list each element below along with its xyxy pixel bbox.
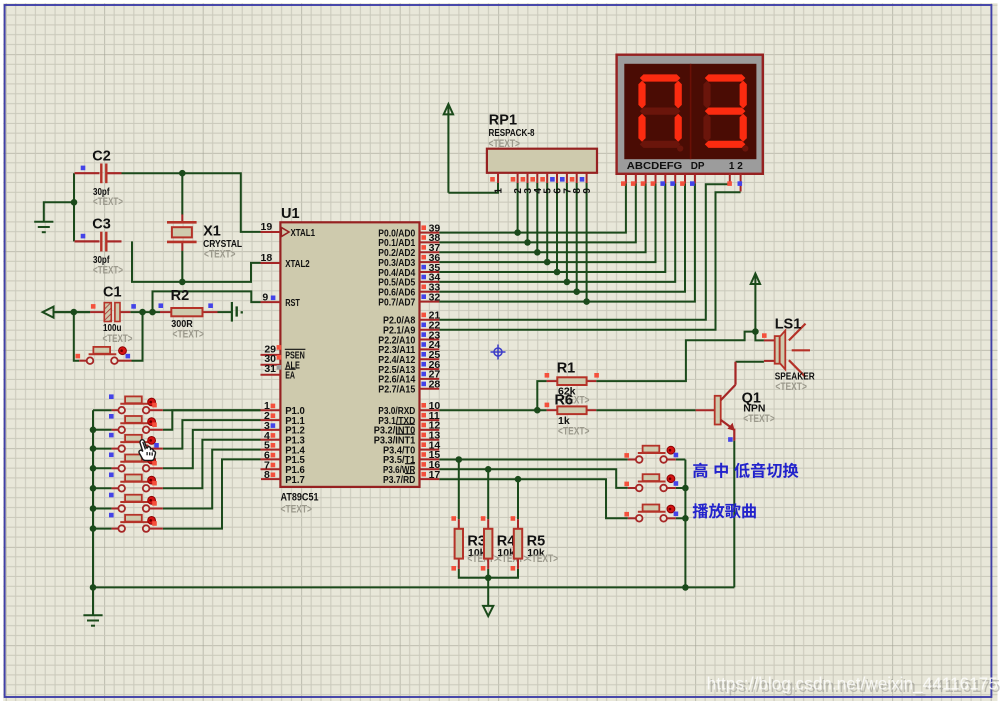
svg-text:DP: DP xyxy=(691,161,705,172)
wire rail to key6 xyxy=(93,508,112,510)
svg-text:19: 19 xyxy=(261,221,273,233)
svg-text:<TEXT>: <TEXT> xyxy=(489,138,521,150)
svg-text:31: 31 xyxy=(264,363,276,375)
left digit segments xyxy=(638,74,683,151)
wire P0.0 to display segment A xyxy=(439,183,626,232)
svg-text:ABCDEFG: ABCDEFG xyxy=(627,161,683,172)
right digit segments xyxy=(703,74,748,151)
wire key7 to P1.6 xyxy=(163,459,261,528)
junction at 152,312 xyxy=(149,309,156,316)
junction at 93,529 xyxy=(90,525,97,532)
svg-text:P1.7: P1.7 xyxy=(285,474,305,486)
wire key2 to P1.1 xyxy=(163,410,261,430)
svg-text:<TEXT>: <TEXT> xyxy=(173,329,205,341)
svg-text:C2: C2 xyxy=(92,148,111,164)
U1 right pins xyxy=(420,233,440,480)
wire P3.0 to R6 xyxy=(439,409,546,411)
svg-text:RST: RST xyxy=(285,297,300,309)
wire C2-C3 left vertical xyxy=(73,173,75,241)
junction at 685,587 xyxy=(682,584,689,591)
Chinese annotation: tone switch xyxy=(693,463,798,478)
junction at 93,508 xyxy=(90,505,97,512)
junction at 182,173 xyxy=(179,170,186,177)
wire power arrow to C1 xyxy=(54,311,90,313)
7-segment display (2 digit) xyxy=(617,55,763,174)
resistor R2 xyxy=(159,288,218,340)
wire P2.1 to display digit2 xyxy=(439,192,740,330)
junction at 528,242 xyxy=(524,239,531,246)
svg-text:<TEXT>: <TEXT> xyxy=(775,381,807,393)
junction at 685,488 xyxy=(682,485,689,492)
wire P3.7 to button xyxy=(439,479,628,518)
transistor Q1 NPN xyxy=(696,362,775,442)
wire to top ground xyxy=(44,202,74,222)
wire RP1 pin6 to P0.4 xyxy=(556,183,558,272)
wire node to R1 left xyxy=(537,381,546,410)
svg-text:32: 32 xyxy=(429,291,441,303)
wire P0.6 to display segment G xyxy=(439,183,685,291)
wire R3-R5 bottoms xyxy=(459,569,518,578)
capacitor C2 xyxy=(75,148,124,208)
svg-text:C1: C1 xyxy=(103,284,122,300)
wire key3 to P1.2 xyxy=(163,420,261,449)
svg-text:1: 1 xyxy=(729,161,735,172)
junction at 182,282 xyxy=(179,279,186,286)
svg-text:XTAL1: XTAL1 xyxy=(291,227,316,239)
svg-text:<TEXT>: <TEXT> xyxy=(103,333,133,345)
wire P3.6 to button xyxy=(439,469,628,488)
svg-text:2: 2 xyxy=(737,161,743,172)
wire P3.5 to button xyxy=(439,459,628,461)
svg-text:<TEXT>: <TEXT> xyxy=(558,425,590,437)
wire power arrow above RP1 xyxy=(447,105,449,193)
U1 left pins xyxy=(261,232,281,479)
wire rail to key1 xyxy=(93,409,112,411)
wire key5 to P1.4 xyxy=(163,440,261,489)
wire power arrow above speaker xyxy=(754,274,756,332)
wire Q1 collector to LS1 pin2 xyxy=(736,361,764,363)
junction at 93,587 xyxy=(90,584,97,591)
resistor R5 10k xyxy=(511,516,558,570)
svg-text:P2.7/A15: P2.7/A15 xyxy=(378,384,415,396)
svg-text:AT89C51: AT89C51 xyxy=(281,492,319,504)
svg-text:R2: R2 xyxy=(171,288,190,304)
wire RP1 pin4 to P0.2 xyxy=(536,183,538,252)
svg-text:<TEXT>: <TEXT> xyxy=(93,264,123,276)
wire R4 to ground arrow xyxy=(487,569,489,606)
svg-text:EA: EA xyxy=(285,370,295,382)
wire RP1 pin7 to P0.5 xyxy=(566,183,568,282)
wire node to R4 xyxy=(487,469,489,519)
junction at 93,488 xyxy=(90,485,97,492)
wire P0.4 to display segment E xyxy=(439,183,665,272)
wire key4 to P1.3 xyxy=(163,430,261,468)
svg-text:https://blog.csdn.net/weixin_4: https://blog.csdn.net/weixin_44116175 xyxy=(707,674,998,694)
power arrow above speaker xyxy=(751,274,760,284)
junction at 93,449 xyxy=(90,445,97,452)
op-amp U1 body: AT89C51 microcontroller xyxy=(280,206,419,516)
junction at 93,430 xyxy=(90,427,97,434)
push button right 3 xyxy=(628,517,636,519)
push button key4 xyxy=(112,467,119,469)
junction at 488,469 xyxy=(485,466,492,473)
svg-text:<TEXT>: <TEXT> xyxy=(281,504,313,516)
svg-text:9: 9 xyxy=(262,292,268,304)
wire P0.2 to display segment C xyxy=(439,183,645,252)
wire P0.3 to display segment D xyxy=(439,183,655,262)
display pin labels xyxy=(627,161,744,172)
wire rail to key4 xyxy=(93,467,112,469)
power arrow above RP1 xyxy=(444,104,453,114)
resistor R4 10k xyxy=(481,516,529,570)
resistor R3 10k xyxy=(451,516,499,570)
wire C1 to reset button xyxy=(74,312,79,361)
wire node to R5 xyxy=(517,479,519,519)
battery symbol right of R2 xyxy=(232,302,237,322)
wire right button1 stub xyxy=(676,459,686,461)
wire key6 to P1.5 xyxy=(163,450,261,509)
svg-text:<TEXT>: <TEXT> xyxy=(497,553,529,565)
mouse hand cursor xyxy=(139,440,156,461)
wire right button3 stub xyxy=(676,517,686,519)
junction at 567,282 xyxy=(564,279,571,286)
display pin state squares xyxy=(621,181,626,186)
junction at 547,262 xyxy=(544,259,551,266)
svg-text:P3.7/RD: P3.7/RD xyxy=(383,474,416,486)
wire rail to key2 xyxy=(93,429,112,431)
svg-text:XTAL2: XTAL2 xyxy=(285,258,310,270)
capacitor C3 xyxy=(75,217,124,277)
wire node to R3 xyxy=(458,460,460,520)
reset button xyxy=(79,360,86,362)
wire rail to key7 xyxy=(93,528,112,530)
resistor R6 xyxy=(545,392,597,437)
Chinese annotation: play song xyxy=(693,503,756,518)
svg-text:9: 9 xyxy=(582,188,593,194)
wire right button2 stub xyxy=(676,487,686,489)
wire P2.0 to display digit1 xyxy=(439,184,730,319)
wire X1 top lead xyxy=(181,173,183,214)
svg-text:1: 1 xyxy=(494,188,505,194)
RP1 pin stubs 1-9 xyxy=(498,173,587,183)
svg-text:<TEXT>: <TEXT> xyxy=(743,413,775,425)
junction at 459,460 xyxy=(456,456,463,463)
wire R2 to battery xyxy=(218,311,232,313)
junction at 537,410 xyxy=(534,407,541,414)
junction at 755,332 xyxy=(752,328,759,335)
svg-text:28: 28 xyxy=(429,379,441,391)
RP1 pin state squares xyxy=(490,177,495,182)
svg-text:R1: R1 xyxy=(557,360,576,376)
svg-text:LS1: LS1 xyxy=(775,316,802,332)
svg-text:18: 18 xyxy=(261,252,273,264)
junction at 518,479 xyxy=(515,476,522,483)
wire key1 to P1.0 xyxy=(163,409,261,411)
junction at 518,233 xyxy=(514,229,521,236)
wire ground rail xyxy=(93,586,734,588)
wire P0.1 to display segment B xyxy=(439,183,636,242)
push button key1 xyxy=(112,409,119,411)
push button right 1 xyxy=(628,459,636,461)
wire P0.7 to display segment DP xyxy=(439,183,695,301)
display pin stubs xyxy=(626,174,741,192)
RP1 pin numbers xyxy=(494,188,594,194)
junction at 74,312 xyxy=(71,309,78,316)
wire power to RP1 pin1 xyxy=(448,183,498,193)
svg-text:<TEXT>: <TEXT> xyxy=(93,196,123,208)
wire RP1 pin8 to P0.6 xyxy=(576,183,578,292)
power arrow left of C1 xyxy=(43,307,91,318)
wire P0.5 to display segment F xyxy=(439,183,675,282)
resistor R1 xyxy=(545,360,599,397)
wire rail to key3 xyxy=(93,448,112,450)
svg-text:17: 17 xyxy=(429,469,441,481)
speaker LS1 xyxy=(762,316,815,393)
wire RP1 pin9 to P0.7 xyxy=(586,183,588,302)
ground arrow below R4 xyxy=(483,606,493,616)
wire Q1 emitter to ground rail xyxy=(733,441,735,588)
origin crosshair marker xyxy=(491,345,506,360)
wire X1 bottom lead xyxy=(181,251,183,282)
svg-text:U1: U1 xyxy=(281,206,300,222)
junction at 142,312 xyxy=(139,309,146,316)
wire C2 to XTAL1 xyxy=(122,173,261,232)
resistor pack RP1 RESPACK-8 xyxy=(487,113,597,173)
junction at 685,518 xyxy=(682,515,689,522)
crystal X1 xyxy=(167,214,243,260)
wire RP1 pin5 to P0.3 xyxy=(546,183,548,262)
junction at 587,302 xyxy=(583,298,590,305)
junction at 74,202 xyxy=(71,199,78,206)
wire C3 to XTAL2 xyxy=(132,241,261,282)
wire left button rail xyxy=(92,410,94,587)
junction at 557,272 xyxy=(554,269,561,276)
svg-text:P0.7/AD7: P0.7/AD7 xyxy=(378,296,415,308)
junction at 93,468 xyxy=(90,465,97,472)
push button key3 xyxy=(112,448,119,450)
wire RP1 pin2 to P0.0 xyxy=(517,183,519,233)
wire RP1 pin3 to P0.1 xyxy=(527,183,529,242)
junction at 488,578 xyxy=(485,575,492,582)
ground top-left xyxy=(34,222,53,232)
wire R6 to Q1 base xyxy=(596,409,695,411)
push button key2 xyxy=(112,429,119,431)
junction at 537,252 xyxy=(534,249,541,256)
wire reset button up xyxy=(132,312,143,361)
svg-text:<TEXT>: <TEXT> xyxy=(204,249,236,261)
capacitor C1 xyxy=(90,284,136,345)
wire rail to key5 xyxy=(93,487,112,489)
push button key6 xyxy=(112,508,119,510)
wire right buttons to ground rail xyxy=(684,460,686,588)
svg-text:C3: C3 xyxy=(92,217,111,233)
svg-text:<TEXT>: <TEXT> xyxy=(527,553,559,565)
wire C1 to R2 xyxy=(130,311,160,313)
ground bottom-left xyxy=(83,615,102,625)
push button key5 xyxy=(112,487,119,489)
wire rail to ground xyxy=(92,587,94,615)
push button right 2 xyxy=(628,487,636,489)
wire to RST pin xyxy=(153,291,261,312)
svg-text:8: 8 xyxy=(264,469,270,481)
junction at 577,292 xyxy=(573,288,580,295)
push button key7 xyxy=(112,528,119,530)
wire power to LS1 pin1 xyxy=(755,332,764,341)
wire R1 right to power node xyxy=(596,332,755,382)
